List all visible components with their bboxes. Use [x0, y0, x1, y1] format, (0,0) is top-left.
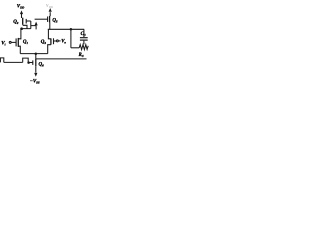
label VDD left	[17, 5, 25, 10]
wire Q6 source down with arrow to -VSS	[35, 66, 37, 73]
wire Q1 source down	[18, 46, 20, 53]
terminal Vo circle	[56, 40, 58, 42]
svg-text:−VSS: −VSS	[30, 79, 40, 84]
transistor Q2 (PMOS, diode-connected)	[22, 18, 24, 25]
wire mirror gate line to Q5	[35, 18, 48, 20]
label Q6	[39, 63, 45, 68]
node dot Q2/Q1 drains	[20, 27, 23, 30]
transistor Q6 (NMOS current source)	[35, 59, 37, 66]
terminal box bottom left	[0, 58, 3, 63]
svg-text:CC: CC	[81, 32, 86, 37]
wire output node vertical	[70, 29, 72, 48]
label Vi	[1, 40, 5, 46]
wire Q2 drain down	[22, 25, 31, 28]
wire Q3 source down	[48, 45, 51, 54]
svg-text:VDD: VDD	[17, 5, 25, 10]
wire bottom rail right	[36, 58, 87, 60]
wire Q2 source lead to VDD with arrow up	[21, 14, 23, 18]
label CC	[81, 32, 86, 37]
capacitor CC	[83, 29, 85, 37]
wire arrow up at mirror node	[35, 25, 37, 29]
svg-text:Q6: Q6	[39, 63, 45, 68]
wire top node rail	[48, 28, 84, 30]
svg-text:Q1: Q1	[23, 40, 29, 45]
label RC	[79, 53, 84, 58]
node dot on top rail	[70, 28, 73, 31]
svg-text:Vo: Vo	[61, 40, 66, 45]
svg-text:Q5: Q5	[52, 18, 58, 23]
wire Q5 source to VDD with arrow up	[49, 12, 51, 16]
label Vo	[61, 40, 66, 45]
wire to Rc	[71, 47, 79, 49]
wire mid rail (Q1/Q3 sources, Q6 drain)	[20, 53, 47, 55]
wire Vo stub	[59, 40, 61, 42]
label -VSS	[30, 79, 40, 84]
svg-text:VDD: VDD	[46, 4, 53, 9]
node dot mid rail	[35, 53, 38, 56]
label Q5	[52, 18, 58, 23]
wire crossover hop	[23, 58, 29, 62]
wire Q3 drain up to rail	[48, 29, 51, 39]
label Q3	[41, 40, 47, 45]
svg-text:Q2: Q2	[13, 20, 19, 25]
svg-text:Q3: Q3	[41, 40, 47, 45]
resistor RC zigzag	[79, 45, 88, 50]
wire Q2 gate jog down to mirror node	[30, 21, 36, 29]
svg-text:Vi: Vi	[1, 40, 5, 46]
terminal Vi circle	[9, 41, 11, 43]
label VDD right (faint)	[46, 4, 53, 9]
wire Q6 drain up to mid rail	[35, 54, 37, 60]
transistor Q3	[50, 38, 52, 44]
wire Q1 drain up to dot	[18, 29, 21, 39]
wire bottom-left bias line	[4, 61, 23, 63]
transistor Q5 (PMOS mirror)	[47, 17, 49, 22]
wire Q5 drain down	[49, 23, 51, 30]
transistor Q1 (NMOS input)	[17, 38, 19, 47]
label Q2	[13, 20, 19, 25]
svg-text:RC: RC	[79, 53, 84, 58]
label Q1	[23, 40, 29, 45]
node dot Q6 gate	[27, 61, 30, 64]
